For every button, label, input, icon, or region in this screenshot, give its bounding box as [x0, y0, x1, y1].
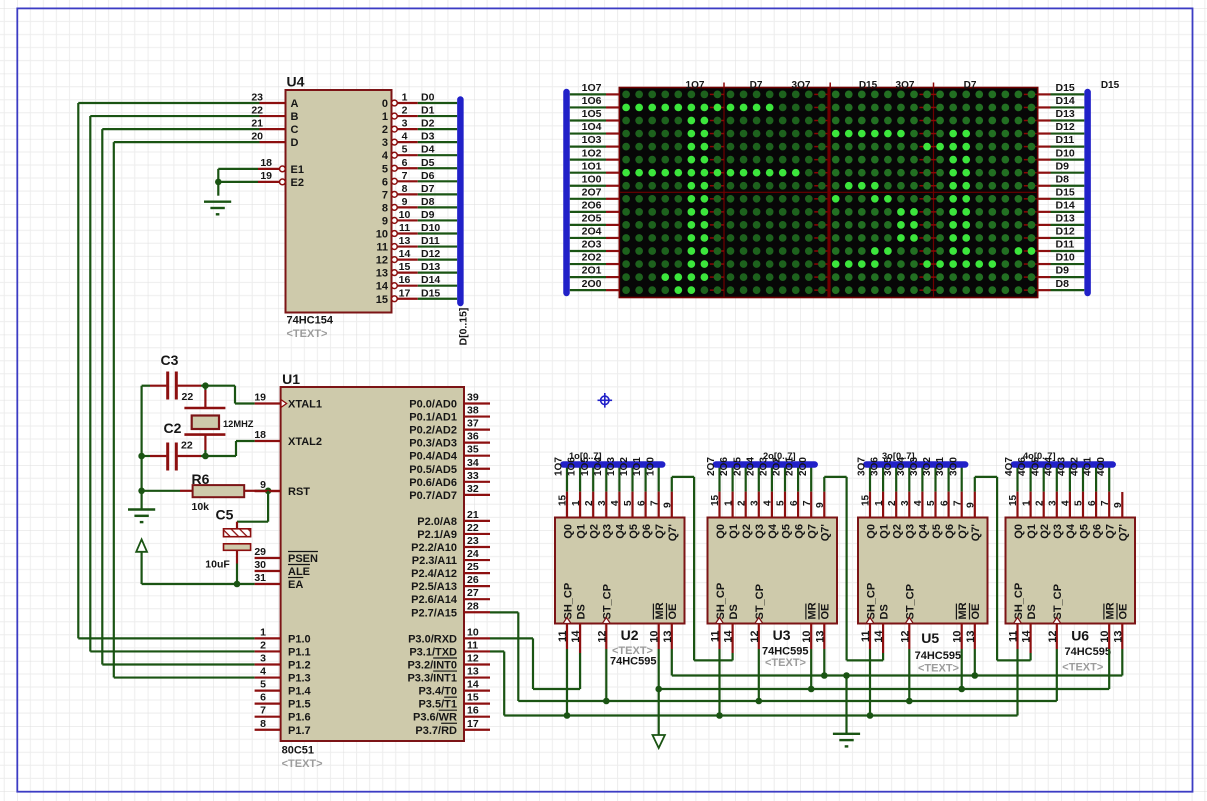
svg-text:6: 6 — [636, 500, 647, 506]
U3 pin Q7 (7) wire net 2O0 — [810, 463, 812, 492]
svg-text:3o[0..7]: 3o[0..7] — [882, 451, 915, 461]
svg-text:7: 7 — [382, 189, 388, 201]
svg-text:2O3: 2O3 — [582, 239, 602, 251]
svg-text:1: 1 — [382, 111, 388, 123]
svg-text:<TEXT>: <TEXT> — [287, 328, 328, 340]
svg-text:15: 15 — [861, 494, 872, 506]
svg-text:B: B — [291, 111, 299, 123]
svg-text:8: 8 — [402, 183, 408, 195]
svg-text:11: 11 — [557, 631, 569, 643]
IC U1 80C51 body — [281, 387, 464, 741]
U5 pin SH_CP (11) — [869, 624, 871, 650]
svg-text:4: 4 — [1061, 500, 1072, 506]
junction E2 — [215, 179, 222, 186]
svg-text:6: 6 — [382, 176, 388, 188]
svg-text:Q0: Q0 — [865, 524, 877, 539]
svg-text:D14: D14 — [1056, 199, 1075, 211]
svg-text:13: 13 — [814, 631, 826, 643]
svg-text:32: 32 — [467, 483, 479, 495]
svg-text:1O4: 1O4 — [582, 121, 602, 133]
U4 pin A (23) — [260, 102, 286, 104]
svg-text:10: 10 — [801, 631, 813, 643]
U1 pin P1.5 (6) — [255, 703, 281, 705]
U3 pin Q6 (6) wire net 2O1 — [797, 463, 799, 492]
svg-text:1: 1 — [1021, 500, 1032, 506]
U5 pin Q7 (7) wire net 3O0 — [961, 463, 963, 492]
svg-text:DS: DS — [1026, 604, 1038, 619]
U2 pin Q3 (3) wire net 1O4 — [605, 463, 607, 492]
U1 pin P3.1/TXD (11) — [464, 650, 490, 652]
wire P1.0 to U4.A vertical bus of 4 wires — [77, 103, 79, 638]
U3 pin MR (10) — [810, 624, 812, 650]
svg-text:11: 11 — [1008, 631, 1020, 643]
output terminal arrow below U2 MR — [653, 735, 665, 748]
svg-text:37: 37 — [467, 418, 479, 430]
svg-text:11: 11 — [710, 631, 722, 643]
svg-text:6: 6 — [260, 692, 266, 704]
svg-text:Q1: Q1 — [575, 524, 587, 539]
U2 pin Q1 (1) wire net 1O6 — [579, 463, 581, 492]
svg-text:Q2: Q2 — [1039, 524, 1051, 539]
junction U5 OE — [972, 672, 979, 679]
svg-text:2O0: 2O0 — [798, 457, 809, 476]
svg-text:5: 5 — [260, 679, 266, 691]
U1 pin ALE (30) — [255, 570, 281, 572]
svg-text:74HC154: 74HC154 — [287, 315, 334, 327]
LED matrix module 1 (left 16x16) — [619, 88, 828, 298]
U2 pin DS (14) — [579, 624, 581, 654]
junction C2 left — [138, 453, 145, 460]
wire E1/E2 to ground — [218, 168, 258, 170]
U2 pin Q7 (7) wire net 1O0 — [658, 463, 660, 492]
svg-text:24: 24 — [467, 548, 479, 560]
matrix row wire 1O3 / D11 — [570, 146, 606, 148]
U3 pin ST_CP (12) — [758, 624, 760, 650]
svg-text:E2: E2 — [291, 177, 304, 189]
svg-text:MR: MR — [1105, 602, 1117, 619]
svg-text:1O3: 1O3 — [582, 134, 602, 146]
svg-text:P2.2/A10: P2.2/A10 — [411, 542, 457, 554]
svg-text:3: 3 — [750, 500, 761, 506]
svg-text:Q0: Q0 — [562, 524, 574, 539]
svg-text:1O0: 1O0 — [645, 457, 656, 476]
U5 pin Q1 (1) wire net 3O6 — [882, 463, 884, 492]
svg-text:10uF: 10uF — [205, 559, 230, 571]
svg-text:P1.1: P1.1 — [288, 646, 311, 658]
matrix row wire 1O1 / D9 — [570, 172, 606, 174]
svg-text:P0.7/AD7: P0.7/AD7 — [409, 490, 457, 502]
svg-text:Q4: Q4 — [1065, 523, 1077, 539]
svg-text:15: 15 — [558, 494, 569, 506]
junction U2 SH_CP — [564, 712, 571, 719]
svg-text:P1.2: P1.2 — [288, 660, 311, 672]
svg-text:6: 6 — [789, 500, 800, 506]
U1 pin P2.4/A12 (25) — [464, 572, 490, 574]
svg-text:17: 17 — [399, 287, 411, 299]
svg-text:8: 8 — [260, 718, 266, 730]
svg-text:2: 2 — [1034, 500, 1045, 506]
svg-text:MR: MR — [654, 602, 666, 619]
U1 pin P3.3/INT1 (13) — [464, 676, 490, 678]
svg-text:1: 1 — [874, 500, 885, 506]
matrix row wire 2O7 / D15 — [570, 198, 606, 200]
svg-text:P0.0/AD0: P0.0/AD0 — [409, 399, 457, 411]
matrix row wire 1O7 / D15 — [570, 93, 606, 95]
U5 pin Q2 (2) wire net 3O5 — [895, 463, 897, 492]
matrix row wire 1O4 / D12 — [570, 132, 606, 134]
svg-text:4O3: 4O3 — [1057, 457, 1068, 476]
svg-text:DS: DS — [728, 604, 740, 619]
svg-text:D6: D6 — [421, 170, 435, 182]
svg-text:P2.5/A13: P2.5/A13 — [411, 581, 457, 593]
svg-text:3: 3 — [1048, 500, 1059, 506]
svg-text:2O4: 2O4 — [745, 457, 756, 476]
svg-text:Q4: Q4 — [918, 523, 930, 539]
svg-text:OE: OE — [1118, 604, 1130, 620]
svg-text:D15: D15 — [1056, 82, 1075, 94]
U1 pin P2.3/A11 (24) — [464, 559, 490, 561]
svg-text:11: 11 — [399, 222, 410, 234]
svg-text:28: 28 — [467, 600, 479, 612]
svg-text:16: 16 — [399, 274, 411, 286]
svg-text:XTAL2: XTAL2 — [288, 436, 322, 448]
U1 pin P0.3/AD3 (36) — [464, 442, 490, 444]
svg-text:D13: D13 — [421, 261, 440, 273]
U6 pin Q5 (5) wire net 4O2 — [1082, 463, 1084, 492]
svg-text:1O2: 1O2 — [582, 147, 602, 159]
svg-text:P3.4/T0: P3.4/T0 — [418, 686, 457, 698]
svg-text:2O1: 2O1 — [582, 265, 602, 277]
svg-text:3O1: 3O1 — [935, 457, 946, 476]
junction C5/EA wire — [234, 581, 241, 588]
U2 pin Q0 (15) wire net 1O7 — [566, 463, 568, 492]
U1 pin XTAL1 (19) — [255, 402, 281, 404]
U5 output bus — [866, 461, 965, 468]
U1 pin P1.2 (3) — [255, 663, 281, 665]
svg-text:17: 17 — [467, 718, 479, 730]
bus D[0..15] — [457, 100, 464, 304]
svg-text:22: 22 — [182, 391, 194, 403]
svg-text:U1: U1 — [282, 371, 300, 387]
svg-text:E1: E1 — [291, 164, 304, 176]
U6 pin DS (14) — [1029, 624, 1031, 654]
U1 XTAL1 input arrow — [281, 400, 287, 408]
svg-text:2: 2 — [382, 124, 388, 136]
svg-text:U5: U5 — [921, 630, 939, 646]
svg-text:3O6: 3O6 — [870, 457, 881, 476]
U1 pin P2.0/A8 (21) — [464, 520, 490, 522]
U4 pin D (20) — [260, 141, 286, 143]
svg-text:3: 3 — [402, 118, 408, 130]
matrix internal dividers — [723, 88, 725, 296]
matrix row wire 2O4 / D12 — [570, 237, 606, 239]
svg-text:9: 9 — [402, 196, 408, 208]
svg-text:12: 12 — [899, 631, 911, 643]
U1 pin P3.6/WR (16) — [464, 716, 490, 718]
svg-text:D9: D9 — [1056, 160, 1070, 172]
svg-text:D3: D3 — [421, 131, 435, 143]
junction RST/R6/C5 — [265, 488, 272, 495]
svg-text:D8: D8 — [1056, 278, 1070, 290]
svg-text:Q1: Q1 — [1026, 524, 1038, 539]
svg-text:23: 23 — [251, 92, 263, 104]
svg-text:21: 21 — [251, 118, 263, 130]
matrix row wire 1O5 / D13 — [570, 119, 606, 121]
U4 pin B (22) — [260, 115, 286, 117]
matrix internal red pin stubs — [710, 83, 1037, 291]
svg-text:10k: 10k — [192, 501, 210, 513]
junction R6 left / ground — [138, 488, 145, 495]
svg-text:SH_CP: SH_CP — [562, 583, 574, 620]
svg-text:Q7: Q7 — [957, 524, 969, 539]
junction U3 MR — [808, 686, 815, 693]
wire U5 Q7' daisy-chain to U6 DS — [974, 492, 976, 518]
svg-text:14: 14 — [873, 630, 885, 643]
svg-text:MR: MR — [807, 602, 819, 619]
svg-text:2: 2 — [402, 105, 408, 117]
svg-text:P3.1/TXD: P3.1/TXD — [409, 646, 457, 658]
matrix LED dots — [622, 91, 1035, 294]
U6 pin Q0 (15) wire net 4O7 — [1016, 463, 1018, 492]
svg-text:P0.1/AD1: P0.1/AD1 — [409, 412, 457, 424]
svg-text:<TEXT>: <TEXT> — [918, 663, 959, 675]
matrix row wire 2O2 / D10 — [570, 263, 606, 265]
svg-text:P2.3/A11: P2.3/A11 — [412, 555, 457, 567]
matrix row wire 2O1 / D9 — [570, 276, 606, 278]
svg-text:7: 7 — [802, 500, 813, 506]
U1 pin P1.4 (5) — [255, 689, 281, 691]
svg-text:P3.3/INT1: P3.3/INT1 — [407, 673, 457, 685]
svg-text:39: 39 — [467, 392, 479, 404]
junction U5 SH_CP — [867, 712, 874, 719]
svg-text:19: 19 — [254, 392, 266, 404]
svg-text:6: 6 — [1087, 500, 1098, 506]
svg-text:Q7': Q7' — [667, 524, 679, 542]
svg-text:MR: MR — [957, 602, 969, 619]
svg-text:1: 1 — [571, 500, 582, 506]
junction U5 MR — [958, 686, 965, 693]
U4 pin E1 (18) inverted — [258, 168, 279, 170]
svg-text:7: 7 — [1100, 500, 1111, 506]
svg-text:OE: OE — [820, 604, 832, 620]
svg-text:14: 14 — [723, 630, 735, 643]
IC U6 74HC595 body — [1006, 518, 1136, 624]
U2 output bus — [563, 461, 662, 468]
svg-text:P1.4: P1.4 — [288, 686, 312, 698]
U3 pin Q1 (1) wire net 2O6 — [731, 463, 733, 492]
svg-text:13: 13 — [376, 268, 388, 280]
svg-text:U4: U4 — [287, 74, 305, 90]
U6 pin Q6 (6) wire net 4O1 — [1095, 463, 1097, 492]
svg-text:D11: D11 — [1056, 134, 1075, 146]
svg-text:7: 7 — [260, 705, 266, 717]
svg-text:Q6: Q6 — [641, 524, 653, 539]
svg-text:P3.5/T1: P3.5/T1 — [418, 699, 457, 711]
svg-text:74HC595: 74HC595 — [610, 656, 656, 668]
svg-text:2O0: 2O0 — [582, 278, 602, 290]
svg-text:36: 36 — [467, 431, 479, 443]
svg-text:D11: D11 — [421, 235, 440, 247]
svg-text:1O2: 1O2 — [619, 457, 630, 476]
svg-text:33: 33 — [467, 470, 479, 482]
svg-text:P2.4/A12: P2.4/A12 — [411, 568, 457, 580]
svg-text:12: 12 — [596, 631, 608, 643]
svg-text:ALE: ALE — [288, 566, 310, 578]
matrix row wire 2O5 / D13 — [570, 224, 606, 226]
wire MR row — [659, 688, 1109, 690]
U1 pin P0.4/AD4 (35) — [464, 455, 490, 457]
junction XTAL1/C3/crystal — [202, 382, 209, 389]
U1 pin P1.3 (4) — [255, 676, 281, 678]
svg-text:2O5: 2O5 — [582, 213, 602, 225]
wire U2 Q7' daisy-chain to U3 DS — [671, 492, 673, 518]
svg-text:6: 6 — [939, 500, 950, 506]
svg-text:11: 11 — [376, 242, 388, 254]
matrix row wire 1O2 / D10 — [570, 159, 606, 161]
svg-text:Q0: Q0 — [715, 524, 727, 539]
matrix row wire 2O6 / D14 — [570, 211, 606, 213]
svg-text:4O1: 4O1 — [1083, 457, 1094, 476]
svg-text:74HC595: 74HC595 — [762, 646, 808, 658]
svg-text:ST_CP: ST_CP — [905, 584, 917, 619]
origin marker — [598, 393, 613, 408]
wire ground stem — [845, 676, 847, 734]
wire C3-C2-R6 left vertical — [141, 386, 143, 491]
svg-text:22: 22 — [467, 522, 479, 534]
svg-text:Q3: Q3 — [602, 524, 614, 539]
svg-text:29: 29 — [254, 546, 266, 558]
svg-text:Q7: Q7 — [807, 524, 819, 539]
IC U3 74HC595 body — [708, 518, 838, 624]
svg-text:P1.6: P1.6 — [288, 712, 311, 724]
svg-text:5: 5 — [926, 500, 937, 506]
svg-text:14: 14 — [570, 630, 582, 643]
U2 pin Q5 (5) wire net 1O2 — [631, 463, 633, 492]
svg-text:D7: D7 — [964, 80, 977, 91]
U5 pin ST_CP (12) — [908, 624, 910, 650]
svg-text:14: 14 — [399, 248, 411, 260]
svg-text:2o[0..7]: 2o[0..7] — [763, 451, 796, 461]
svg-text:2O5: 2O5 — [732, 457, 743, 476]
U6 pin ST_CP (12) — [1056, 624, 1058, 650]
U1 pin P0.1/AD1 (38) — [464, 415, 490, 417]
svg-text:P1.5: P1.5 — [288, 699, 311, 711]
junction ground/OE row — [843, 672, 850, 679]
U2 pin ST_CP (12) — [605, 624, 607, 650]
U6 Q7' stub unconnected — [1121, 492, 1123, 518]
svg-text:Q6: Q6 — [1091, 524, 1103, 539]
U6 pin Q4 (4) wire net 4O3 — [1069, 463, 1071, 492]
svg-text:Q4: Q4 — [615, 523, 627, 539]
U6 pin Q2 (2) wire net 4O5 — [1043, 463, 1045, 492]
svg-text:1O1: 1O1 — [632, 457, 643, 476]
svg-text:P3.0/RXD: P3.0/RXD — [408, 633, 457, 645]
svg-text:14: 14 — [467, 679, 479, 691]
U2 pin MR (10) — [658, 624, 660, 650]
svg-text:Q7': Q7' — [970, 524, 982, 542]
svg-text:3: 3 — [900, 500, 911, 506]
svg-text:38: 38 — [467, 405, 479, 417]
svg-text:4: 4 — [763, 500, 774, 506]
svg-text:D9: D9 — [421, 209, 435, 221]
svg-text:D12: D12 — [1056, 121, 1075, 133]
wire XTAL2 net — [142, 455, 150, 457]
svg-text:<TEXT>: <TEXT> — [1062, 662, 1103, 674]
svg-text:12: 12 — [1047, 631, 1059, 643]
svg-text:12: 12 — [467, 653, 479, 665]
junction U2 MR — [655, 686, 662, 693]
svg-text:22: 22 — [251, 105, 263, 117]
matrix row wire 1O0 / D8 — [570, 185, 606, 187]
svg-text:20: 20 — [251, 131, 263, 143]
matrix row wire 1O6 / D14 — [570, 106, 606, 108]
svg-text:XTAL1: XTAL1 — [288, 399, 322, 411]
svg-text:15: 15 — [467, 692, 479, 704]
U1 pin P0.2/AD2 (37) — [464, 429, 490, 431]
svg-text:2: 2 — [584, 500, 595, 506]
U1 pin P1.1 (2) — [255, 650, 281, 652]
svg-text:D11: D11 — [1056, 239, 1075, 251]
U1 pin P0.7/AD7 (32) — [464, 494, 490, 496]
svg-text:5: 5 — [1074, 500, 1085, 506]
matrix row wire 2O0 / D8 — [570, 289, 606, 291]
svg-text:Q7: Q7 — [654, 524, 666, 539]
svg-text:5: 5 — [776, 500, 787, 506]
svg-text:74HC595: 74HC595 — [915, 650, 961, 662]
U1 pin P0.0/AD0 (39) — [464, 402, 490, 404]
IC U4 74HC154 body — [286, 90, 392, 313]
svg-text:<TEXT>: <TEXT> — [765, 657, 806, 669]
U1 pin P2.6/A14 (27) — [464, 598, 490, 600]
svg-text:P2.0/A8: P2.0/A8 — [417, 516, 457, 528]
IC U2 74HC595 body — [555, 518, 685, 624]
U6 pin Q1 (1) wire net 4O6 — [1029, 463, 1031, 492]
svg-text:21: 21 — [467, 509, 479, 521]
svg-text:Q5: Q5 — [1078, 524, 1090, 539]
svg-text:13: 13 — [965, 631, 977, 643]
svg-text:D1: D1 — [421, 105, 435, 117]
svg-text:Q3: Q3 — [1052, 524, 1064, 539]
U3 pin Q3 (3) wire net 2O4 — [758, 463, 760, 492]
svg-text:15: 15 — [710, 494, 721, 506]
crystal X1 12MHZ — [204, 386, 206, 390]
U3 pin SH_CP (11) — [718, 624, 720, 650]
svg-text:U2: U2 — [621, 627, 639, 643]
svg-text:13: 13 — [467, 666, 479, 678]
svg-text:80C51: 80C51 — [282, 745, 314, 757]
svg-text:SH_CP: SH_CP — [865, 583, 877, 620]
wire U3 Q7' daisy-chain to U5 DS — [823, 492, 825, 518]
svg-text:2: 2 — [887, 500, 898, 506]
U1 pin P3.4/T0 (14) — [464, 689, 490, 691]
U4 pin C (21) — [260, 128, 286, 130]
svg-text:D10: D10 — [421, 222, 440, 234]
svg-text:2: 2 — [736, 500, 747, 506]
svg-text:2O6: 2O6 — [582, 199, 602, 211]
svg-text:11: 11 — [860, 631, 872, 643]
LED matrix module 2 (right 16x16) — [830, 88, 1038, 298]
svg-text:10: 10 — [467, 626, 479, 638]
svg-text:D9: D9 — [1056, 265, 1070, 277]
U1 pin P0.5/AD5 (34) — [464, 468, 490, 470]
svg-text:C: C — [291, 124, 299, 136]
svg-text:OE: OE — [667, 604, 679, 620]
svg-text:1O6: 1O6 — [582, 95, 602, 107]
svg-text:P2.6/A14: P2.6/A14 — [411, 594, 458, 606]
svg-text:ST_CP: ST_CP — [1052, 584, 1064, 619]
svg-text:Q5: Q5 — [780, 524, 792, 539]
wire OE row (to ground) — [672, 674, 1123, 676]
